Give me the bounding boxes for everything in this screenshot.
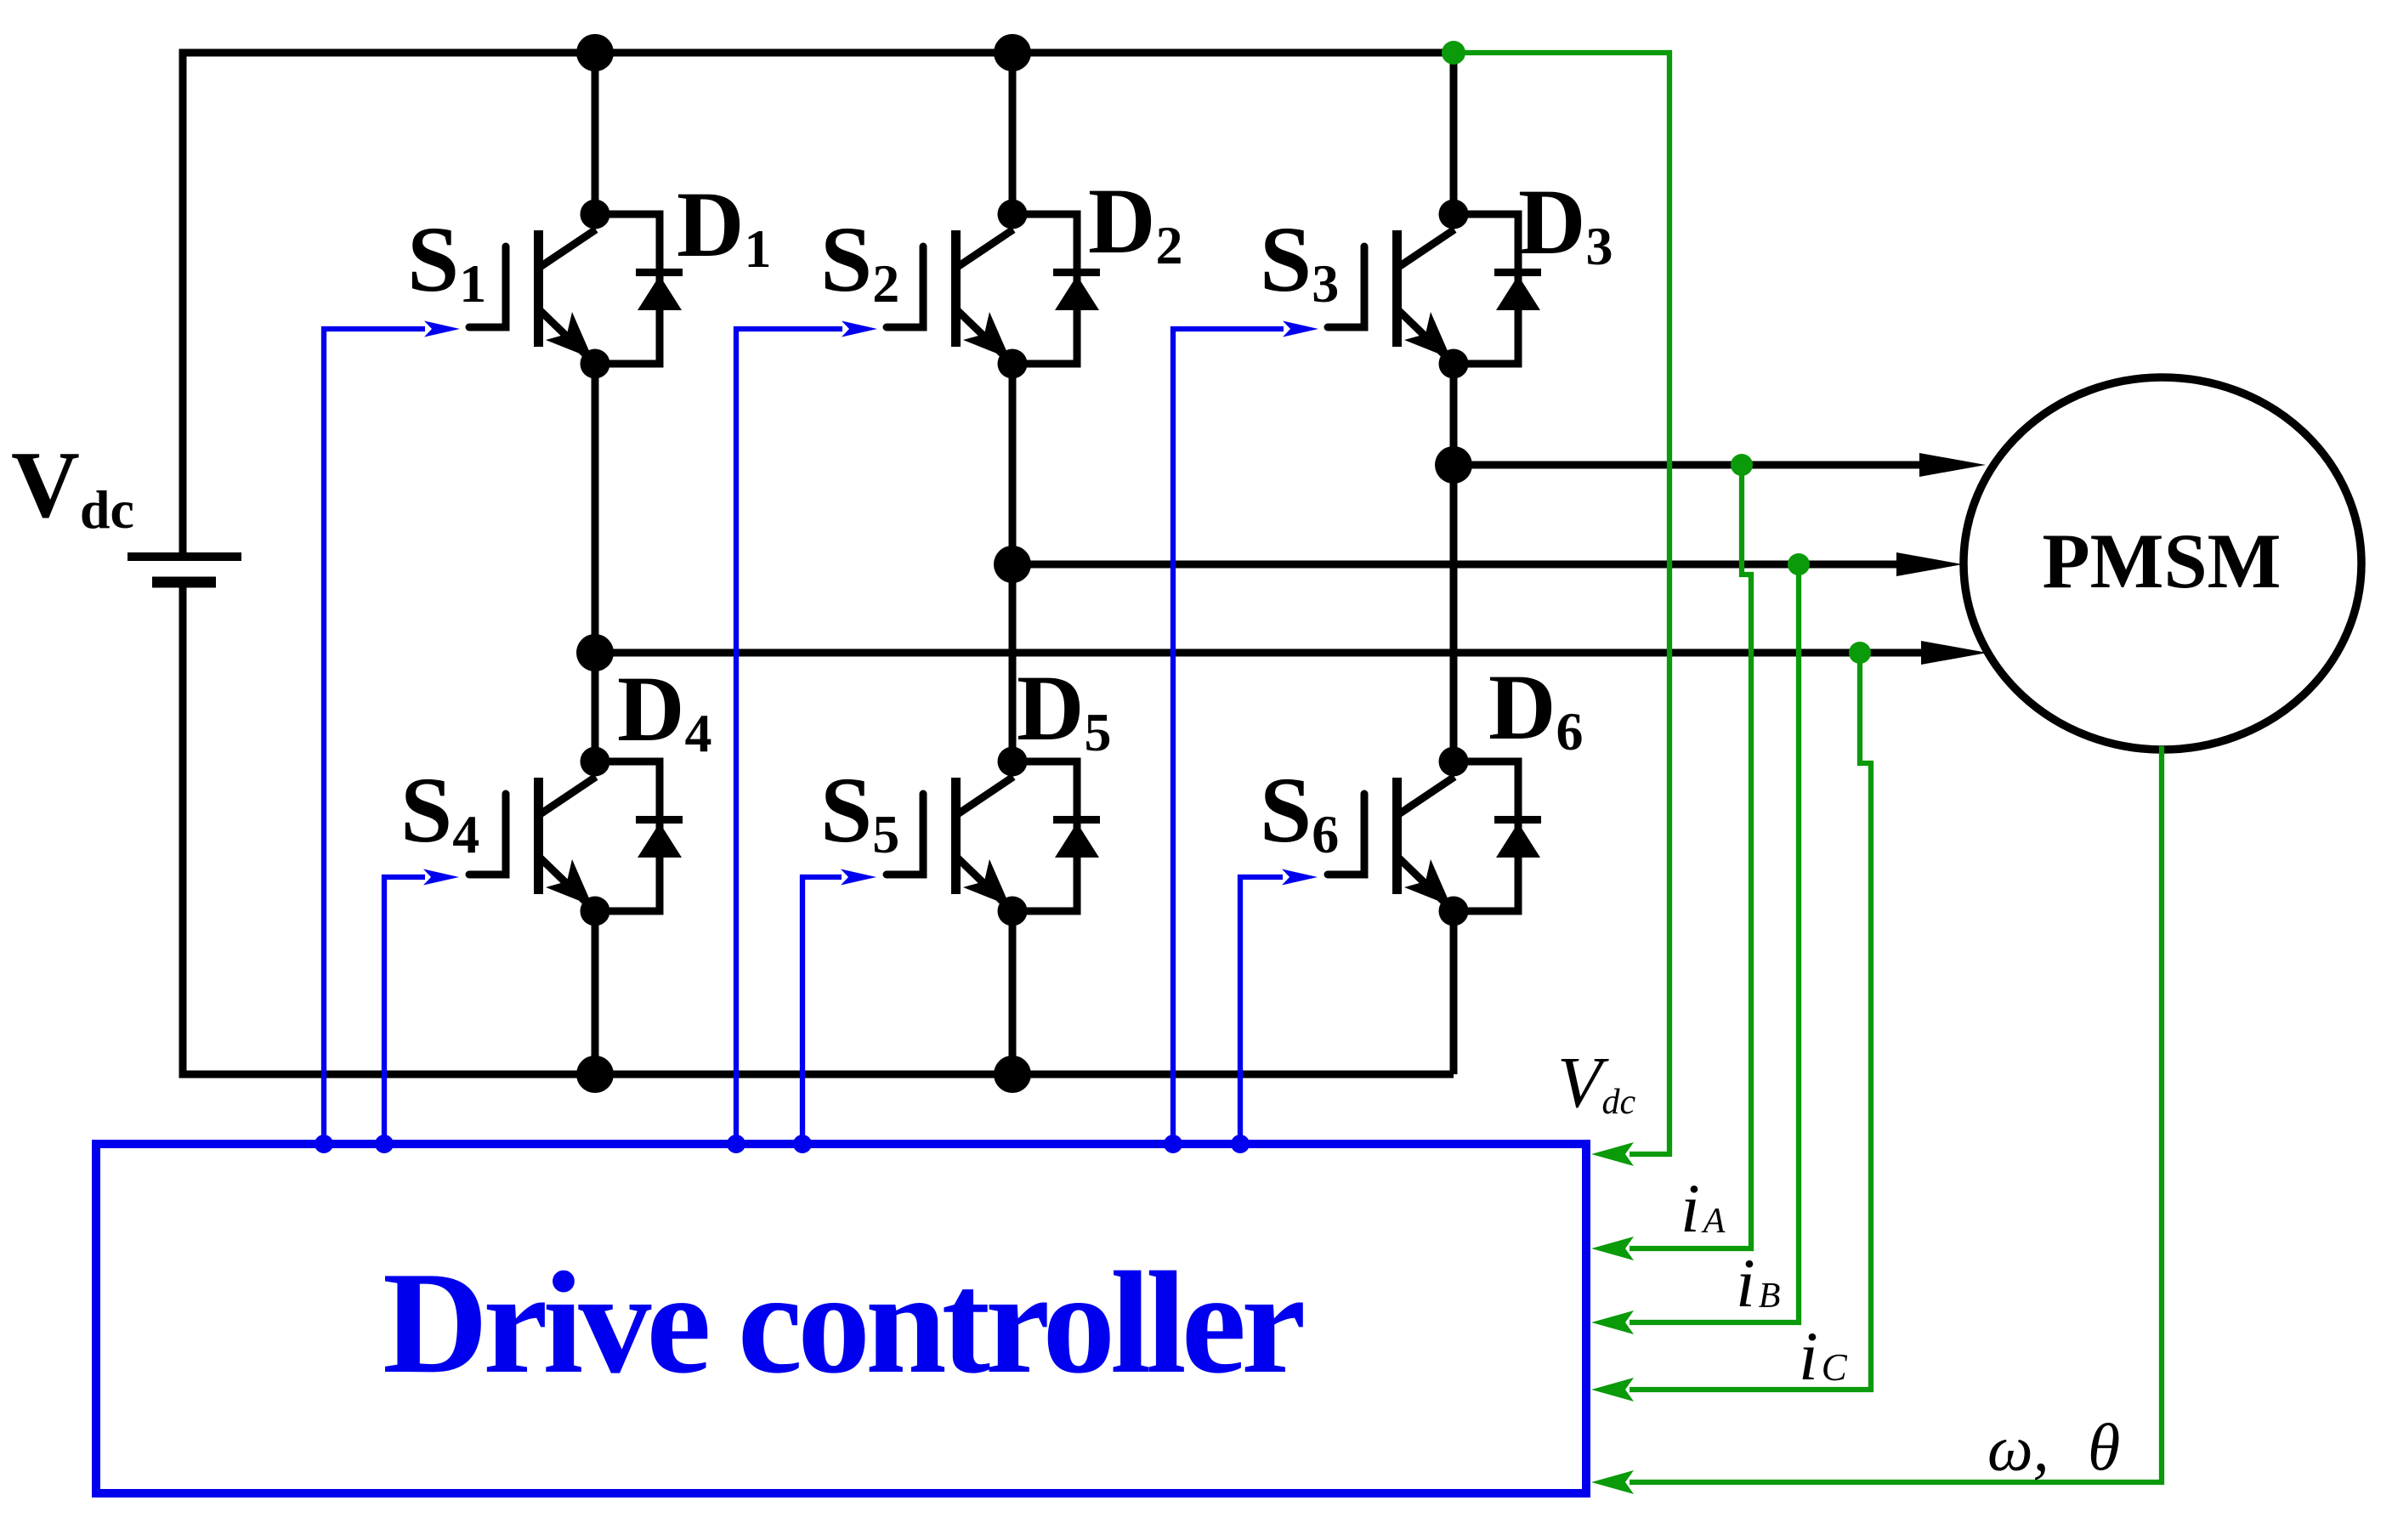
node gate bus S1 (315, 1135, 333, 1153)
svg-text:D1: D1 (677, 173, 771, 279)
arrow gate S5 (841, 869, 876, 886)
svg-text:S3: S3 (1260, 207, 1339, 314)
arrow Vdc sense (1591, 1142, 1634, 1166)
svg-text:iC: iC (1799, 1317, 1848, 1395)
battery Vdc plate short (152, 577, 216, 588)
arrow phase C (1921, 641, 1987, 665)
svg-text:θ: θ (2088, 1410, 2120, 1484)
svg-text:D4: D4 (617, 657, 711, 763)
node: phase C junction (576, 634, 614, 671)
svg-text:D5: D5 (1017, 656, 1111, 762)
arrow gate S2 (842, 321, 877, 337)
wire: phase B line (1012, 561, 1896, 569)
wire: gate drive S6 (blue) (1240, 877, 1283, 1144)
wire: gate drive S3 (blue) (1173, 329, 1284, 1144)
svg-text:Vdc: Vdc (11, 433, 134, 540)
battery Vdc plate long (128, 552, 241, 561)
wire: leg 2 vertical (1009, 53, 1017, 1074)
arrow iC sense (1591, 1378, 1634, 1401)
wire: gate drive S4 (blue) (384, 877, 425, 1144)
node Vdc sense tap (1442, 41, 1465, 65)
svg-text:S5: S5 (820, 758, 899, 864)
svg-text:S2: S2 (820, 207, 899, 314)
wire: phase C line (595, 649, 1921, 657)
transistor S2 with diode D2 (887, 200, 1100, 379)
node iC tap (1849, 642, 1871, 664)
motor PMSM (1964, 377, 2361, 750)
transistor S5 with diode D5 (887, 747, 1100, 926)
wire: leg 3 vertical (1450, 53, 1458, 1074)
wire: gate drive S2 (blue) (736, 329, 842, 1144)
svg-text:D3: D3 (1518, 170, 1613, 276)
svg-text:PMSM: PMSM (2042, 518, 2281, 604)
arrow iA sense (1591, 1237, 1634, 1260)
wire: phase A line (1454, 461, 1923, 469)
svg-text:S4: S4 (400, 758, 479, 864)
transistor S6 with diode D6 (1328, 747, 1541, 926)
wire: Vdc sense (green) (1454, 53, 1669, 1154)
svg-text:D6: D6 (1488, 655, 1583, 762)
svg-text:Drive controller: Drive controller (383, 1243, 1303, 1404)
node: top rail leg1 junction (576, 34, 614, 71)
node gate bus S5 (793, 1135, 812, 1153)
arrow phase B (1896, 552, 1963, 576)
node: phase B junction (994, 546, 1031, 583)
arrow gate S6 (1282, 869, 1318, 886)
node gate bus S3 (1164, 1135, 1182, 1153)
arrow gate S4 (423, 869, 459, 886)
node: bottom rail leg1 junction (576, 1056, 614, 1093)
wire: gate drive S5 (blue) (802, 877, 842, 1144)
wire: iC sense (green) (1630, 653, 1871, 1390)
wire: DC bus left loop (top rail, left rail, bottom rail) (183, 53, 1454, 1074)
svg-text:S1: S1 (407, 207, 486, 314)
transistor S3 with diode D3 (1328, 200, 1541, 379)
arrow gate S1 (424, 321, 460, 337)
arrow gate S3 (1283, 321, 1318, 337)
wire: iB sense (green) (1630, 564, 1799, 1322)
node: phase A junction (1435, 446, 1472, 484)
svg-text:Vdc: Vdc (1557, 1041, 1636, 1123)
arrow speed/angle sense (1591, 1470, 1634, 1494)
transistor S1 with diode D1 (469, 200, 683, 379)
svg-text:iB: iB (1736, 1244, 1780, 1322)
controller box Drive controller (96, 1144, 1586, 1493)
node gate bus S4 (375, 1135, 394, 1153)
node: top rail leg2 junction (994, 34, 1031, 71)
svg-text:D2: D2 (1088, 169, 1182, 275)
svg-text:S6: S6 (1260, 758, 1339, 864)
arrow iB sense (1591, 1311, 1634, 1334)
node gate bus S2 (727, 1135, 745, 1153)
node: bottom rail leg2 junction (994, 1056, 1031, 1093)
node gate bus S6 (1231, 1135, 1250, 1153)
wire: speed/angle sense (green) (1630, 746, 2162, 1482)
wire: leg 1 vertical (592, 53, 599, 1074)
svg-text:ω,: ω, (1987, 1413, 2049, 1485)
wire: gate drive S1 (blue) (324, 329, 425, 1144)
svg-text:iA: iA (1681, 1169, 1726, 1247)
node iA tap (1731, 454, 1753, 476)
arrow phase A (1919, 453, 1986, 477)
wire: iA sense (green) (1630, 465, 1751, 1248)
transistor S4 with diode D4 (469, 747, 683, 926)
node iB tap (1788, 553, 1810, 575)
